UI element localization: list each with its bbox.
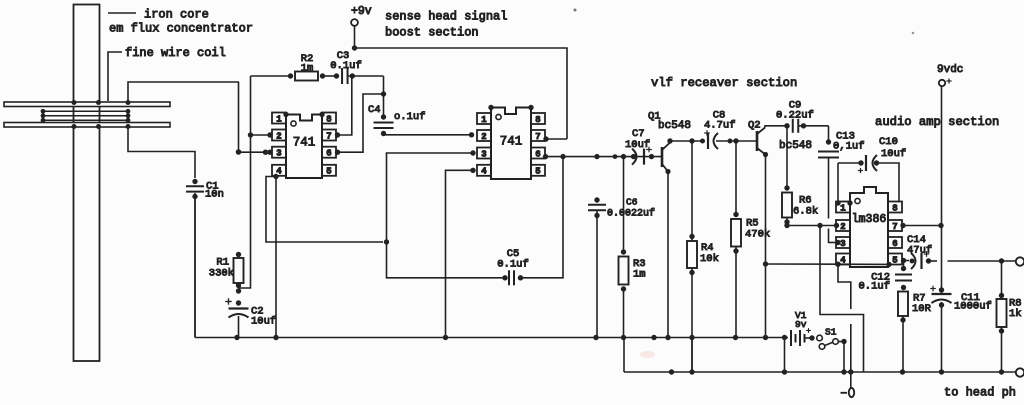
- svg-text:1m: 1m: [633, 269, 646, 281]
- svg-text:sense head signal: sense head signal: [385, 10, 507, 24]
- svg-text:9v: 9v: [795, 319, 807, 330]
- svg-text:3: 3: [840, 239, 845, 249]
- svg-text:audio amp section: audio amp section: [875, 115, 999, 129]
- svg-text:o.1uf: o.1uf: [394, 111, 426, 123]
- svg-text:0.1uf: 0.1uf: [330, 60, 362, 72]
- svg-text:vlf receaver section: vlf receaver section: [651, 76, 797, 90]
- svg-text:0.22uf: 0.22uf: [776, 110, 814, 122]
- svg-text:10uf: 10uf: [251, 316, 276, 328]
- svg-text:Q2: Q2: [748, 120, 761, 132]
- svg-text:741: 741: [293, 136, 316, 150]
- svg-text:em flux concentrator: em flux concentrator: [109, 22, 253, 36]
- svg-text:4.7uf: 4.7uf: [704, 120, 736, 132]
- svg-text:0.0022uf: 0.0022uf: [607, 208, 655, 220]
- svg-text:2: 2: [481, 132, 486, 142]
- svg-text:boost section: boost section: [385, 26, 479, 40]
- svg-text:7: 7: [326, 131, 331, 141]
- svg-text:to head ph: to head ph: [944, 386, 1016, 400]
- svg-text:7: 7: [892, 222, 897, 232]
- svg-text:5: 5: [326, 167, 331, 177]
- svg-text:5: 5: [535, 167, 540, 177]
- svg-text:47uf: 47uf: [907, 245, 932, 257]
- svg-text:1: 1: [840, 203, 846, 213]
- svg-text:1: 1: [481, 115, 487, 125]
- svg-text:10n: 10n: [205, 189, 224, 201]
- svg-text:10uf: 10uf: [625, 139, 650, 151]
- svg-text:C6: C6: [626, 197, 638, 208]
- svg-text:1m: 1m: [301, 63, 314, 75]
- svg-text:3: 3: [481, 149, 486, 159]
- svg-text:1k: 1k: [1009, 308, 1022, 320]
- svg-text:bc548: bc548: [779, 140, 812, 152]
- svg-text:6: 6: [535, 149, 540, 159]
- svg-text:5: 5: [892, 255, 897, 265]
- svg-text:8: 8: [892, 203, 897, 213]
- svg-text:8: 8: [326, 114, 331, 124]
- svg-text:+9v: +9v: [351, 5, 372, 18]
- svg-text:741: 741: [500, 135, 523, 149]
- svg-text:0.1uf: 0.1uf: [497, 259, 529, 271]
- svg-text:iron core: iron core: [144, 8, 209, 22]
- svg-text:4: 4: [481, 167, 487, 177]
- svg-text:1000uf: 1000uf: [954, 301, 992, 313]
- svg-text:10R: 10R: [912, 303, 932, 315]
- svg-text:0,1uf: 0,1uf: [833, 141, 865, 153]
- svg-text:2: 2: [276, 131, 281, 141]
- svg-text:0.1uf: 0.1uf: [858, 281, 890, 293]
- svg-text:1: 1: [276, 114, 282, 124]
- svg-text:C10: C10: [879, 136, 898, 148]
- svg-text:470k: 470k: [745, 229, 770, 241]
- svg-text:C4: C4: [368, 104, 381, 116]
- svg-text:6: 6: [892, 239, 897, 249]
- svg-text:3: 3: [276, 149, 281, 159]
- svg-text:lm386: lm386: [852, 213, 887, 226]
- svg-text:10uf: 10uf: [881, 148, 906, 160]
- svg-text:fine wire coil: fine wire coil: [125, 46, 226, 60]
- svg-text:10k: 10k: [700, 253, 719, 265]
- svg-text:bc548: bc548: [658, 120, 691, 132]
- svg-text:9vdc: 9vdc: [937, 64, 963, 76]
- svg-text:6.8k: 6.8k: [793, 206, 818, 218]
- svg-text:8: 8: [535, 115, 540, 125]
- svg-text:330k: 330k: [209, 268, 234, 280]
- svg-text:7: 7: [535, 132, 540, 142]
- svg-text:S1: S1: [825, 327, 837, 338]
- svg-text:6: 6: [326, 149, 331, 159]
- svg-text:2: 2: [840, 222, 845, 232]
